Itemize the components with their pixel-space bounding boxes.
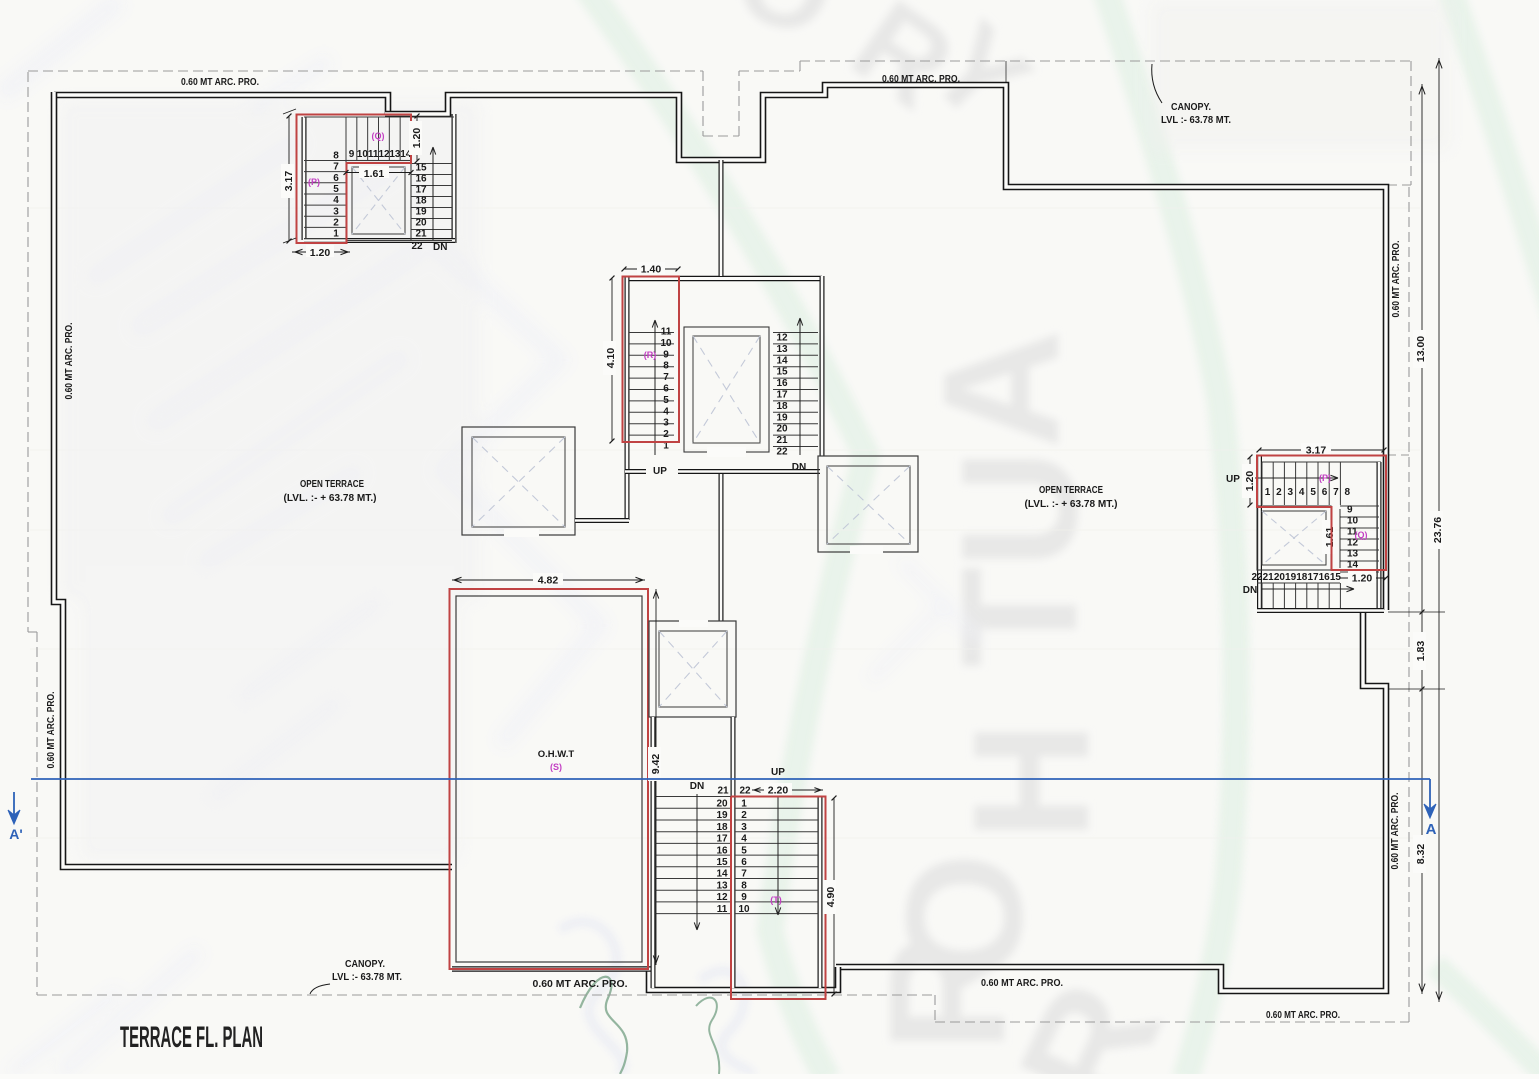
svg-text:15: 15	[415, 163, 427, 174]
svg-text:5: 5	[741, 845, 747, 856]
svg-text:22: 22	[776, 447, 788, 458]
svg-text:(P): (P)	[1319, 473, 1331, 483]
svg-text:OPEN TERRACE: OPEN TERRACE	[1039, 484, 1103, 496]
svg-text:6: 6	[741, 857, 747, 868]
svg-text:21: 21	[717, 786, 729, 797]
svg-text:17: 17	[415, 185, 427, 196]
svg-text:8: 8	[741, 880, 747, 891]
svg-text:21: 21	[1263, 572, 1275, 583]
svg-text:6: 6	[333, 173, 339, 184]
svg-text:(R): (R)	[644, 350, 657, 360]
svg-text:0.60 MT ARC. PRO.: 0.60 MT ARC. PRO.	[46, 691, 57, 768]
svg-text:UP: UP	[771, 767, 785, 778]
svg-text:10: 10	[660, 338, 672, 349]
svg-text:UP: UP	[1226, 474, 1240, 485]
svg-text:7: 7	[663, 372, 669, 383]
svg-text:20: 20	[776, 424, 788, 435]
svg-text:4.82: 4.82	[538, 575, 559, 587]
svg-text:2: 2	[663, 429, 669, 440]
svg-text:14: 14	[716, 869, 728, 880]
svg-text:11: 11	[717, 904, 728, 915]
svg-text:0.60 MT ARC. PRO.: 0.60 MT ARC. PRO.	[882, 74, 960, 85]
svg-text:7: 7	[1333, 487, 1339, 498]
svg-text:2: 2	[1276, 487, 1282, 498]
svg-text:4: 4	[333, 195, 339, 206]
svg-text:16: 16	[716, 845, 728, 856]
svg-text:1.83: 1.83	[1415, 641, 1427, 662]
svg-text:12: 12	[378, 149, 390, 160]
svg-text:12: 12	[716, 892, 728, 903]
svg-text:(Q): (Q)	[1355, 530, 1368, 540]
svg-text:2.20: 2.20	[768, 785, 789, 797]
svg-text:DN: DN	[433, 242, 447, 253]
svg-text:4: 4	[1299, 487, 1305, 498]
svg-text:9: 9	[741, 892, 747, 903]
svg-text:11: 11	[661, 327, 672, 338]
svg-text:22: 22	[739, 786, 751, 797]
svg-text:14: 14	[776, 355, 788, 366]
svg-text:21: 21	[415, 229, 427, 240]
svg-text:0.60 MT ARC. PRO.: 0.60 MT ARC. PRO.	[1266, 1010, 1340, 1021]
svg-text:16: 16	[415, 174, 427, 185]
svg-text:0.60 MT ARC. PRO.: 0.60 MT ARC. PRO.	[64, 322, 75, 399]
svg-text:21: 21	[776, 435, 788, 446]
svg-text:23.76: 23.76	[1432, 517, 1444, 543]
svg-text:CANOPY.: CANOPY.	[1171, 102, 1211, 113]
svg-text:OPEN TERRACE: OPEN TERRACE	[300, 478, 364, 490]
svg-text:1: 1	[741, 799, 747, 810]
svg-text:DN: DN	[690, 781, 704, 792]
svg-text:(Q): (Q)	[372, 131, 385, 141]
svg-text:1: 1	[1265, 487, 1271, 498]
svg-text:9.42: 9.42	[650, 754, 662, 775]
svg-text:(P): (P)	[308, 177, 320, 187]
svg-text:9: 9	[663, 349, 669, 360]
svg-text:1.20: 1.20	[411, 128, 423, 149]
svg-text:22: 22	[411, 241, 423, 252]
svg-text:O.H.W.T: O.H.W.T	[538, 749, 575, 760]
svg-text:15: 15	[716, 857, 728, 868]
svg-text:20: 20	[415, 218, 427, 229]
svg-text:19: 19	[716, 810, 728, 821]
svg-text:22: 22	[1251, 572, 1263, 583]
svg-text:18: 18	[776, 401, 788, 412]
svg-text:0.60 MT ARC. PRO.: 0.60 MT ARC. PRO.	[981, 978, 1063, 989]
svg-text:DN: DN	[792, 462, 806, 473]
svg-text:4.10: 4.10	[605, 348, 617, 369]
svg-text:5: 5	[663, 395, 669, 406]
svg-text:15: 15	[1330, 572, 1342, 583]
svg-text:A': A'	[9, 826, 22, 842]
svg-text:18: 18	[716, 822, 728, 833]
svg-text:LVL :- 63.78 MT.: LVL :- 63.78 MT.	[1161, 115, 1231, 126]
svg-text:3: 3	[741, 822, 747, 833]
svg-text:11: 11	[368, 149, 379, 160]
svg-text:UP: UP	[653, 466, 667, 477]
svg-text:10: 10	[357, 149, 369, 160]
svg-text:3: 3	[1288, 487, 1294, 498]
svg-text:2: 2	[333, 217, 339, 228]
svg-text:7: 7	[741, 869, 747, 880]
svg-text:1: 1	[333, 229, 339, 240]
svg-text:18: 18	[1296, 572, 1308, 583]
svg-text:5: 5	[333, 184, 339, 195]
svg-text:4.90: 4.90	[825, 887, 837, 908]
svg-text:1.61: 1.61	[364, 168, 385, 180]
svg-text:10: 10	[1347, 516, 1359, 527]
svg-text:13: 13	[1347, 549, 1359, 560]
svg-text:17: 17	[716, 834, 728, 845]
svg-text:7: 7	[333, 162, 339, 173]
svg-text:12: 12	[776, 333, 788, 344]
svg-text:16: 16	[1319, 572, 1331, 583]
svg-text:9: 9	[1347, 505, 1353, 516]
svg-text:1.40: 1.40	[641, 264, 662, 276]
svg-text:13: 13	[389, 149, 401, 160]
svg-text:13.00: 13.00	[1415, 336, 1427, 362]
svg-text:20: 20	[716, 799, 728, 810]
svg-text:6: 6	[1322, 487, 1328, 498]
svg-text:4: 4	[741, 834, 747, 845]
svg-text:(S): (S)	[550, 762, 562, 772]
svg-text:9: 9	[349, 149, 355, 160]
svg-text:0.60 MT ARC. PRO.: 0.60 MT ARC. PRO.	[533, 979, 628, 990]
svg-text:4: 4	[663, 406, 669, 417]
svg-text:1.20: 1.20	[1244, 471, 1256, 492]
svg-text:19: 19	[415, 207, 427, 218]
svg-text:1.20: 1.20	[1352, 573, 1373, 585]
svg-text:8: 8	[663, 361, 669, 372]
svg-text:0.60 MT ARC. PRO.: 0.60 MT ARC. PRO.	[1390, 792, 1401, 869]
svg-text:2: 2	[741, 810, 747, 821]
svg-text:(T): (T)	[770, 895, 782, 905]
svg-text:3: 3	[663, 418, 669, 429]
svg-text:17: 17	[776, 390, 788, 401]
svg-text:TERRACE FL. PLAN: TERRACE FL. PLAN	[120, 1021, 263, 1054]
svg-text:8.32: 8.32	[1415, 844, 1427, 865]
svg-text:18: 18	[415, 196, 427, 207]
svg-text:CANOPY.: CANOPY.	[345, 959, 385, 970]
svg-text:14: 14	[1347, 560, 1359, 571]
svg-text:3.17: 3.17	[283, 171, 295, 192]
svg-text:(LVL. :- + 63.78 MT.): (LVL. :- + 63.78 MT.)	[284, 493, 377, 504]
svg-text:1.20: 1.20	[310, 247, 331, 259]
svg-text:0.60 MT ARC. PRO.: 0.60 MT ARC. PRO.	[1391, 240, 1402, 317]
svg-text:19: 19	[1285, 572, 1297, 583]
svg-text:DN: DN	[1243, 585, 1257, 596]
svg-text:5: 5	[1310, 487, 1316, 498]
svg-text:10: 10	[738, 904, 750, 915]
svg-text:0.60 MT ARC. PRO.: 0.60 MT ARC. PRO.	[181, 77, 259, 88]
svg-text:8: 8	[333, 151, 339, 162]
svg-text:1.61: 1.61	[1324, 527, 1336, 548]
svg-text:3: 3	[333, 206, 339, 217]
svg-text:13: 13	[716, 880, 728, 891]
svg-text:(LVL. :- + 63.78 MT.): (LVL. :- + 63.78 MT.)	[1025, 499, 1118, 510]
svg-text:15: 15	[776, 367, 788, 378]
svg-text:16: 16	[776, 378, 788, 389]
svg-text:6: 6	[663, 384, 669, 395]
svg-text:19: 19	[776, 412, 788, 423]
svg-text:LVL :- 63.78 MT.: LVL :- 63.78 MT.	[332, 972, 402, 983]
svg-text:17: 17	[1307, 572, 1319, 583]
svg-text:13: 13	[776, 344, 788, 355]
svg-text:A: A	[1426, 821, 1437, 838]
svg-text:8: 8	[1345, 487, 1351, 498]
svg-text:20: 20	[1274, 572, 1286, 583]
